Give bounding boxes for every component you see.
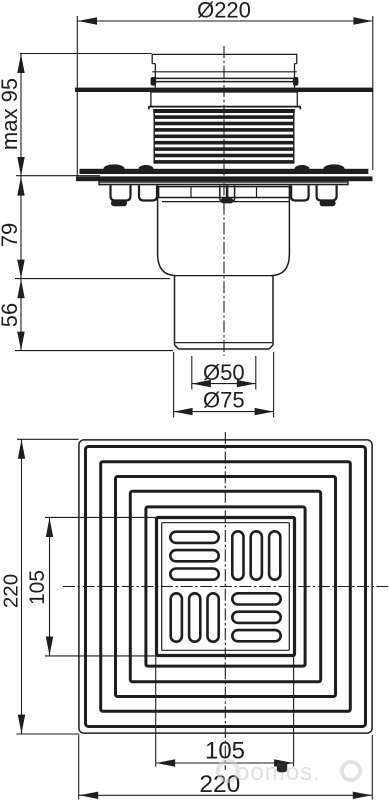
svg-text:79: 79 <box>0 223 22 247</box>
svg-text:Ø220: Ø220 <box>197 0 251 23</box>
svg-text:Ø50: Ø50 <box>203 360 245 385</box>
svg-text:Ø75: Ø75 <box>203 387 245 412</box>
svg-text:56: 56 <box>0 303 22 327</box>
svg-text:220: 220 <box>0 574 23 608</box>
svg-text:105: 105 <box>26 570 49 605</box>
svg-text:max 95: max 95 <box>0 78 22 150</box>
